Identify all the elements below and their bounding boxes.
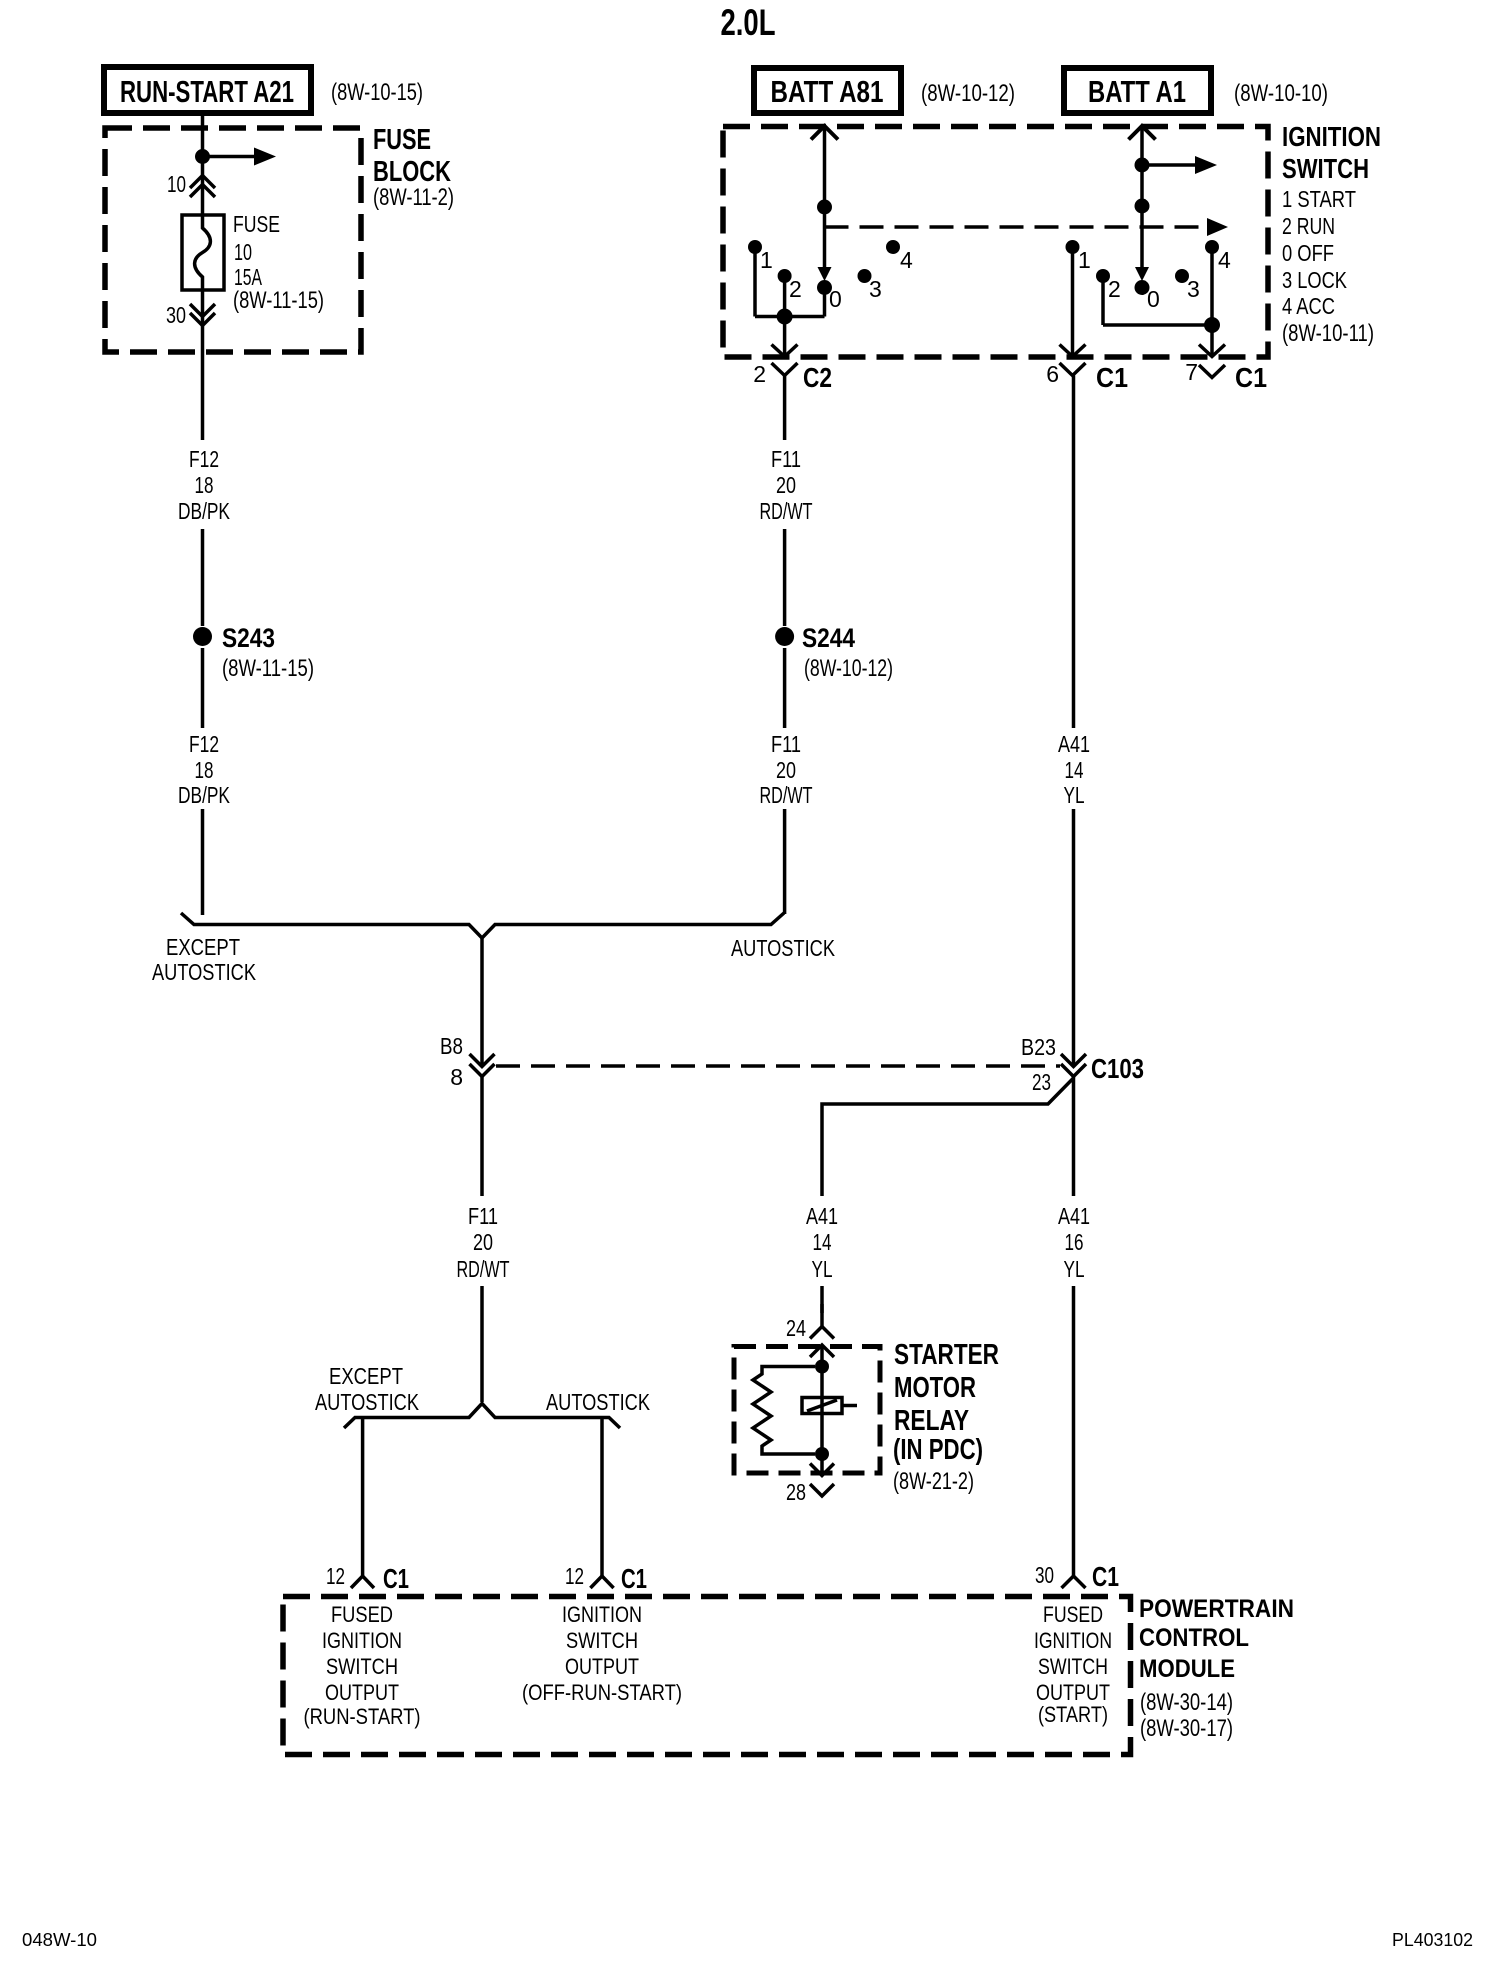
wire A41 below label to C103 [1072, 809, 1076, 1064]
arrow out of relay bottom [810, 1454, 834, 1476]
contact 4 left [886, 240, 913, 273]
svg-text:(8W-11-15): (8W-11-15) [222, 655, 314, 682]
fuse value label [233, 211, 324, 314]
svg-text:STARTER: STARTER [894, 1339, 999, 1371]
svg-text:RD/WT: RD/WT [760, 782, 813, 808]
arrow out bottom C2 [772, 345, 798, 357]
power feed box BATT A1 [1064, 68, 1211, 113]
svg-text:RD/WT: RD/WT [457, 1256, 510, 1282]
svg-text:(8W-21-2): (8W-21-2) [893, 1468, 974, 1495]
svg-text:A41: A41 [1058, 1203, 1090, 1229]
ignition switch name label [1282, 121, 1381, 347]
starter motor relay dashed box [734, 1347, 880, 1474]
movable contact arrow to position 0 left [818, 267, 832, 281]
svg-text:IGNITION: IGNITION [562, 1602, 642, 1627]
svg-text:C1: C1 [1235, 362, 1267, 393]
svg-text:C1: C1 [1092, 1561, 1119, 1592]
svg-text:PL403102: PL403102 [1392, 1930, 1473, 1950]
svg-text:(8W-11-2): (8W-11-2) [373, 184, 454, 211]
ignition switch dashed box [723, 127, 1268, 358]
svg-text:RUN-START A21: RUN-START A21 [120, 74, 294, 109]
svg-text:C1: C1 [621, 1563, 647, 1594]
svg-text:20: 20 [473, 1229, 493, 1255]
svg-text:FUSED: FUSED [331, 1602, 393, 1627]
bus wire left switch [755, 315, 825, 319]
svg-text:YL: YL [1064, 782, 1085, 808]
svg-text:F12: F12 [189, 731, 219, 757]
svg-text:F11: F11 [771, 446, 801, 472]
connector B23 23 C103 [1021, 1034, 1144, 1095]
mechanical linkage dashed line with arrow [825, 218, 1229, 236]
power feed box BATT A81 [754, 68, 901, 113]
wire contact 2 right to bus [1101, 281, 1105, 325]
wire F11 to merge bus [783, 809, 787, 914]
wire F12 to merge bus [201, 809, 205, 915]
svg-text:S244: S244 [802, 623, 855, 653]
contact 0 left [817, 280, 842, 312]
connector 24 of starter relay [786, 1304, 834, 1341]
powertrain control module dashed box [283, 1597, 1131, 1755]
wire label A41 14 YL relay [806, 1203, 838, 1282]
svg-text:2 RUN: 2 RUN [1282, 213, 1335, 239]
svg-text:(8W-30-14): (8W-30-14) [1140, 1689, 1233, 1716]
wire F12 upper segment [201, 290, 205, 440]
svg-text:C103: C103 [1091, 1053, 1144, 1084]
svg-text:B8: B8 [440, 1033, 463, 1059]
relay coil box with actuator [802, 1367, 857, 1455]
svg-text:SWITCH: SWITCH [566, 1628, 638, 1653]
bus wire right switch [1103, 323, 1212, 327]
svg-text:FUSED: FUSED [1043, 1602, 1103, 1627]
movable contact arrow to position 0 right [1135, 267, 1149, 281]
svg-text:F11: F11 [771, 731, 801, 757]
contact 2 right [1096, 269, 1121, 302]
svg-text:BATT A1: BATT A1 [1088, 74, 1186, 109]
svg-text:28: 28 [786, 1479, 806, 1505]
svg-text:MOTOR: MOTOR [894, 1372, 976, 1404]
svg-text:1 START: 1 START [1282, 186, 1356, 212]
arrow up to BATT A81 [811, 126, 838, 140]
svg-text:4: 4 [900, 247, 913, 273]
wire F11 below label to split [480, 1286, 484, 1402]
svg-text:(8W-10-11): (8W-10-11) [1282, 320, 1374, 347]
svg-text:20: 20 [776, 757, 796, 783]
svg-text:4: 4 [1218, 247, 1231, 273]
svg-text:0: 0 [1147, 286, 1160, 312]
svg-text:8: 8 [450, 1064, 463, 1090]
wire contact 1 to bus left [753, 252, 757, 317]
wire A41 14 from 6 C1 [1072, 376, 1076, 729]
fuse block dashed box [105, 128, 361, 352]
svg-text:16: 16 [1065, 1229, 1084, 1255]
wire contact 2 to bus left [783, 281, 787, 318]
svg-text:AUTOSTICK: AUTOSTICK [546, 1389, 651, 1415]
wire F12 below label [201, 529, 205, 626]
svg-text:20: 20 [776, 472, 796, 498]
wire label F11 20 RD/WT bottom [457, 1203, 510, 1282]
contact 1 left [748, 240, 773, 273]
svg-text:YL: YL [812, 1256, 833, 1282]
svg-text:(8W-10-12): (8W-10-12) [804, 655, 893, 682]
svg-text:MODULE: MODULE [1139, 1655, 1235, 1683]
connector 12 C1 left [326, 1563, 409, 1594]
wire to connector C2 [783, 317, 787, 356]
svg-text:AUTOSTICK: AUTOSTICK [152, 959, 257, 985]
svg-text:30: 30 [1035, 1562, 1054, 1588]
node relay top junction [815, 1360, 829, 1374]
PCM pin function fused ignition switch output start [1034, 1602, 1112, 1727]
contact 0 right [1135, 280, 1160, 312]
connector B8 8 of C103 [440, 1033, 495, 1090]
split bus except-autostick / autostick lower [344, 1404, 620, 1429]
svg-text:23: 23 [1032, 1069, 1051, 1095]
connector 2 C2 [753, 361, 832, 393]
svg-text:FUSE: FUSE [373, 124, 431, 156]
wire F12 lower segment [201, 648, 205, 728]
svg-text:EXCEPT: EXCEPT [329, 1363, 403, 1389]
svg-text:OUTPUT: OUTPUT [565, 1654, 639, 1679]
svg-text:1: 1 [760, 247, 773, 273]
label except autostick lower [315, 1363, 420, 1415]
svg-text:2.0L: 2.0L [721, 2, 776, 43]
svg-text:C1: C1 [1096, 362, 1128, 393]
svg-text:(8W-10-15): (8W-10-15) [331, 79, 423, 106]
svg-text:0: 0 [829, 286, 842, 312]
svg-text:C2: C2 [803, 362, 832, 393]
svg-text:OUTPUT: OUTPUT [325, 1680, 399, 1705]
wire label F12 18 DB/PK upper [178, 446, 230, 524]
splice S243 [193, 623, 314, 682]
svg-text:3: 3 [869, 276, 882, 302]
svg-text:A41: A41 [806, 1203, 838, 1229]
contact 4 right [1205, 240, 1231, 273]
svg-text:10: 10 [167, 171, 186, 197]
svg-text:RD/WT: RD/WT [760, 498, 813, 524]
wire label F12 18 DB/PK lower [178, 731, 230, 808]
wire contact 4 to connector 7 C1 [1210, 252, 1214, 355]
svg-text:10: 10 [234, 239, 252, 265]
dashed connector line C103 [496, 1064, 1060, 1068]
svg-text:14: 14 [1065, 757, 1084, 783]
wire label A41 16 YL [1058, 1203, 1090, 1282]
svg-text:AUTOSTICK: AUTOSTICK [731, 935, 836, 961]
node junction on pole A81 [817, 200, 832, 215]
fuse block name label [373, 124, 454, 211]
wire from RUN-START A21 into fuse block [201, 113, 205, 215]
PCM name label [1139, 1595, 1294, 1742]
fuse 10 15A symbol [182, 215, 224, 290]
svg-text:2: 2 [753, 361, 766, 387]
svg-text:B23: B23 [1021, 1034, 1056, 1060]
branch wire to PCM pin 12 run-start [361, 1418, 365, 1565]
svg-text:18: 18 [195, 757, 214, 783]
svg-text:048W-10: 048W-10 [22, 1930, 97, 1950]
svg-text:S243: S243 [222, 623, 275, 653]
svg-text:SWITCH: SWITCH [1038, 1654, 1108, 1679]
svg-text:F12: F12 [189, 446, 219, 472]
svg-text:C1: C1 [383, 1563, 409, 1594]
branch wire to PCM pin 12 autostick [600, 1418, 604, 1565]
arrow out bottom 6 C1 [1060, 345, 1086, 357]
svg-text:A41: A41 [1058, 731, 1090, 757]
svg-text:18: 18 [195, 472, 214, 498]
PCM pin function ignition switch output off-run-start [522, 1602, 682, 1705]
svg-text:POWERTRAIN: POWERTRAIN [1139, 1595, 1294, 1623]
arrow into relay top [810, 1345, 834, 1366]
svg-text:12: 12 [565, 1563, 584, 1589]
svg-text:12: 12 [326, 1563, 345, 1589]
svg-text:DB/PK: DB/PK [178, 498, 230, 524]
svg-text:F11: F11 [468, 1203, 498, 1229]
wire contact 0 to bus left [823, 293, 827, 317]
wire contact 1 to connector 6 C1 [1071, 252, 1075, 355]
svg-text:IGNITION: IGNITION [1282, 121, 1381, 152]
svg-text:2: 2 [789, 276, 802, 302]
node junction pole A1 lower [1135, 199, 1150, 214]
arrow feed right from pole A1 [1142, 156, 1217, 174]
arrow feed to other circuits [203, 148, 277, 166]
svg-text:SWITCH: SWITCH [1282, 153, 1369, 184]
svg-text:(8W-30-17): (8W-30-17) [1140, 1715, 1233, 1742]
wire merged F11 [480, 938, 484, 1064]
svg-text:(8W-10-12): (8W-10-12) [921, 80, 1015, 107]
svg-text:24: 24 [786, 1315, 806, 1341]
starter motor relay name label [893, 1339, 999, 1495]
wire A41 16 to PCM [1072, 1077, 1076, 1197]
wire F11 from C2 [783, 376, 787, 441]
connector chevrons pin 30 [190, 304, 215, 326]
svg-text:(8W-10-10): (8W-10-10) [1234, 80, 1328, 107]
arrow out bottom 7 C1 [1199, 345, 1225, 357]
connector 7 C1 [1185, 359, 1267, 393]
splice S244 [775, 623, 893, 682]
arrow up to BATT A1 [1129, 126, 1156, 140]
svg-text:14: 14 [813, 1229, 832, 1255]
node junction dot in fuse block [195, 149, 210, 164]
svg-text:BATT A81: BATT A81 [771, 74, 884, 109]
node junction bus left [777, 309, 793, 325]
svg-text:YL: YL [1064, 1256, 1085, 1282]
wire label F11 20 RD/WT upper [760, 446, 813, 524]
PCM pin function fused ignition switch output run-start [304, 1602, 421, 1729]
svg-text:AUTOSTICK: AUTOSTICK [315, 1389, 420, 1415]
contact 3 right [1175, 269, 1200, 302]
svg-text:3: 3 [1187, 276, 1200, 302]
connector 6 C1 [1046, 361, 1128, 393]
svg-text:IGNITION: IGNITION [1034, 1628, 1112, 1653]
svg-text:(RUN-START): (RUN-START) [304, 1704, 421, 1729]
branch wire below label to relay [820, 1286, 824, 1313]
svg-text:(START): (START) [1038, 1702, 1108, 1727]
svg-text:CONTROL: CONTROL [1139, 1624, 1249, 1652]
contact 3 left [858, 269, 882, 302]
svg-text:(8W-11-15): (8W-11-15) [233, 287, 324, 314]
svg-text:3 LOCK: 3 LOCK [1282, 267, 1348, 293]
connector 12 C1 middle [565, 1563, 647, 1594]
svg-text:1: 1 [1078, 247, 1091, 273]
svg-text:IGNITION: IGNITION [322, 1628, 402, 1653]
wire label F11 20 RD/WT lower [760, 731, 813, 808]
wire ignition switch pole A81 [823, 127, 827, 274]
svg-text:DB/PK: DB/PK [178, 782, 230, 808]
connector 28 of starter relay [786, 1479, 834, 1505]
relay coil resistor [753, 1367, 815, 1455]
svg-text:EXCEPT: EXCEPT [166, 934, 240, 960]
merge bus except-autostick / autostick [181, 913, 784, 938]
contact 2 left [778, 269, 802, 302]
wire F11 below label [783, 529, 787, 626]
connector 30 C1 right [1035, 1561, 1119, 1592]
svg-text:(OFF-RUN-START): (OFF-RUN-START) [522, 1680, 682, 1705]
wire F11 to split [480, 1077, 484, 1197]
wire label A41 14 YL upper [1058, 731, 1090, 808]
connector chevrons pin 10 [190, 176, 215, 198]
node relay bottom junction [815, 1447, 829, 1461]
svg-text:(IN PDC): (IN PDC) [893, 1434, 983, 1466]
branch wire A41 to starter relay [822, 1078, 1074, 1196]
svg-text:0 OFF: 0 OFF [1282, 240, 1334, 266]
svg-text:6: 6 [1046, 361, 1059, 387]
svg-text:SWITCH: SWITCH [326, 1654, 398, 1679]
wire ignition switch pole A1 [1140, 127, 1144, 274]
svg-text:RELAY: RELAY [894, 1405, 969, 1437]
svg-text:FUSE: FUSE [233, 211, 280, 237]
svg-text:4 ACC: 4 ACC [1282, 293, 1335, 319]
wire A41 16 below label to PCM [1072, 1286, 1076, 1563]
label except autostick upper [152, 934, 257, 985]
node junction below contact 4 [1204, 317, 1220, 333]
wire F11 lower segment [783, 648, 787, 728]
svg-text:2: 2 [1108, 276, 1121, 302]
contact 1 right [1066, 240, 1091, 273]
svg-text:30: 30 [166, 302, 186, 328]
node junction pole A1 upper [1135, 158, 1150, 173]
svg-text:7: 7 [1185, 359, 1198, 385]
power feed box RUN-START A21 [104, 67, 311, 113]
